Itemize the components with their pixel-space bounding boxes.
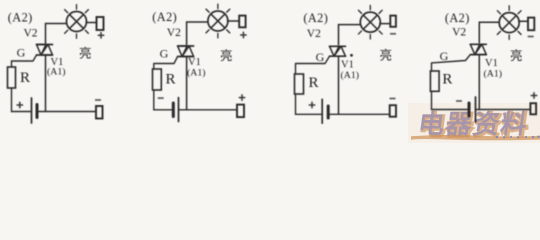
polarity sign + at top terminal, circuit 2 bbox=[240, 32, 247, 39]
svg-text:V2: V2 bbox=[24, 28, 38, 40]
polarity sign - at top terminal, circuit 3 bbox=[390, 33, 396, 35]
triac V1 symbol circuit 1 bbox=[37, 45, 53, 56]
wire lamp to supply terminal, circuit 3 bbox=[380, 23, 391, 25]
triac designator V1 circuit 1 bbox=[51, 57, 64, 68]
node A2 label circuit 1 bbox=[8, 11, 33, 25]
supply terminal (top box) circuit 4 bbox=[528, 18, 534, 31]
triac designator V1 circuit 2 bbox=[188, 57, 201, 68]
battery polarity sign - circuit 4 bbox=[456, 100, 462, 102]
svg-text:V2: V2 bbox=[307, 28, 321, 40]
wire lamp to supply terminal, circuit 1 bbox=[86, 22, 97, 24]
svg-text:G: G bbox=[160, 47, 169, 61]
svg-text:V2: V2 bbox=[452, 27, 466, 39]
wire A2 top: triac anode up and over to lamp, circuit 4 bbox=[479, 22, 500, 43]
gate label G circuit 1 bbox=[17, 46, 26, 60]
watermark underline swoosh bbox=[411, 135, 540, 140]
svg-text:V2: V2 bbox=[167, 27, 181, 39]
wire resistor to battery (bottom left), circuit 4 bbox=[432, 91, 470, 109]
node A2 label circuit 4 bbox=[445, 11, 470, 25]
wire battery to bottom terminal (through A1 node), circuit 1 bbox=[37, 111, 96, 113]
supply terminal (top box) circuit 1 bbox=[97, 17, 104, 30]
watermark tint patch bbox=[408, 103, 540, 143]
svg-text:亮: 亮 bbox=[510, 48, 523, 63]
anode label (A1) circuit 3 bbox=[341, 70, 360, 81]
wire gate G from triac to resistor, circuit 1 bbox=[12, 55, 37, 67]
svg-text:亮: 亮 bbox=[220, 48, 233, 63]
triac designator V1 circuit 4 bbox=[485, 58, 498, 69]
resistor R circuit 2 bbox=[153, 69, 162, 90]
bottom supply terminal (box) circuit 2 bbox=[237, 105, 244, 118]
resistor label R circuit 2 bbox=[166, 72, 176, 88]
svg-text:(A1): (A1) bbox=[484, 68, 503, 79]
resistor R circuit 3 bbox=[295, 74, 304, 94]
lamp state label bright circuit 2 bbox=[220, 48, 233, 63]
wire battery to bottom terminal (through A1 node), circuit 2 bbox=[179, 109, 238, 111]
wire A2 top: triac anode up and over to lamp, circuit 3 bbox=[339, 25, 361, 46]
battery (gate bias cell) circuit 3 bbox=[322, 99, 328, 123]
anode label (A1) circuit 2 bbox=[187, 67, 206, 78]
lamp state label bright circuit 1 bbox=[79, 46, 92, 61]
wire gate G from triac to resistor, circuit 2 bbox=[154, 57, 178, 70]
supply terminal (top box) circuit 2 bbox=[239, 16, 245, 28]
lamp state label bright circuit 3 bbox=[380, 48, 393, 63]
polarity sign + at bottom terminal, circuit 4 bbox=[531, 92, 538, 99]
lamp (indicator bulb) circuit 1 bbox=[65, 5, 89, 39]
gate label G circuit 3 bbox=[316, 50, 325, 64]
triac V1 symbol circuit 2 bbox=[178, 46, 194, 57]
svg-text:G: G bbox=[17, 46, 26, 60]
svg-text:R: R bbox=[442, 72, 452, 88]
wire lamp to supply terminal, circuit 2 bbox=[227, 20, 239, 22]
wire gate G from triac to resistor, circuit 3 bbox=[296, 56, 330, 74]
node A2 label circuit 2 bbox=[152, 10, 177, 24]
polarity sign - at bottom terminal, circuit 1 bbox=[95, 99, 101, 101]
svg-text:R: R bbox=[309, 75, 319, 91]
svg-text:(A2): (A2) bbox=[445, 11, 470, 25]
wire battery to bottom terminal (through A1 node), circuit 4 bbox=[476, 109, 531, 111]
wire lamp to supply terminal, circuit 4 bbox=[519, 20, 528, 22]
gate label G circuit 2 bbox=[160, 47, 169, 61]
wire gate G from triac to resistor, circuit 4 bbox=[432, 55, 471, 71]
battery polarity sign - circuit 2 bbox=[158, 97, 164, 99]
polarity sign - at top terminal, circuit 4 bbox=[528, 36, 534, 38]
lamp state label bright circuit 4 bbox=[510, 48, 523, 63]
svg-text:G: G bbox=[316, 50, 325, 64]
svg-text:(A1): (A1) bbox=[341, 70, 360, 81]
battery polarity sign + circuit 3 bbox=[309, 102, 316, 109]
anode label (A1) circuit 1 bbox=[47, 67, 66, 78]
anode label (A1) circuit 4 bbox=[484, 68, 503, 79]
wire triac cathode A1 down to bottom rail, circuit 2 bbox=[186, 57, 188, 110]
wire A2 top: triac anode up and over to lamp, circuit 2 bbox=[187, 22, 209, 45]
node A2 label circuit 3 bbox=[303, 11, 328, 25]
triac V2 designator label circuit 3 bbox=[307, 28, 321, 40]
wire resistor to battery (bottom left), circuit 3 bbox=[296, 94, 323, 114]
svg-text:(A1): (A1) bbox=[47, 67, 66, 78]
wire battery to bottom terminal (through A1 node), circuit 3 bbox=[328, 113, 390, 115]
svg-text:(A2): (A2) bbox=[303, 11, 328, 25]
resistor label R circuit 4 bbox=[442, 72, 452, 88]
svg-text:G: G bbox=[440, 49, 449, 63]
battery (gate bias cell) circuit 1 bbox=[32, 98, 38, 123]
watermark small blue specks bbox=[496, 136, 540, 139]
svg-text:亮: 亮 bbox=[380, 48, 393, 63]
gate label G circuit 4 bbox=[440, 49, 449, 63]
resistor label R circuit 3 bbox=[309, 75, 319, 91]
triac V2 designator label circuit 1 bbox=[24, 28, 38, 40]
lamp (indicator bulb) circuit 2 bbox=[206, 4, 230, 38]
wire triac cathode A1 down to bottom rail, circuit 1 bbox=[45, 55, 47, 112]
svg-text:R: R bbox=[20, 70, 30, 86]
polarity sign + at bottom terminal, circuit 2 bbox=[239, 94, 246, 101]
svg-text:(A1): (A1) bbox=[187, 67, 206, 78]
triac V1 symbol circuit 4 bbox=[470, 44, 486, 54]
watermark text 电器资料 (blue layer) bbox=[416, 110, 530, 139]
battery (gate bias cell) circuit 2 bbox=[173, 98, 178, 122]
battery (gate bias cell) circuit 4 bbox=[469, 97, 476, 122]
supply terminal (top box) circuit 3 bbox=[390, 16, 396, 27]
svg-text:(A2): (A2) bbox=[152, 10, 177, 24]
triac V2 designator label circuit 2 bbox=[167, 27, 181, 39]
lamp (indicator bulb) circuit 4 bbox=[497, 6, 521, 40]
wire resistor to battery (bottom left), circuit 2 bbox=[154, 90, 174, 110]
resistor R circuit 1 bbox=[8, 67, 16, 88]
resistor R circuit 4 bbox=[430, 71, 439, 91]
stray ink dot circuit 3 bbox=[350, 54, 353, 57]
polarity sign - at bottom terminal, circuit 3 bbox=[390, 98, 396, 100]
resistor label R circuit 1 bbox=[20, 70, 30, 86]
lamp (indicator bulb) circuit 3 bbox=[358, 5, 382, 39]
wire triac cathode A1 down to bottom rail, circuit 3 bbox=[338, 56, 340, 114]
wire resistor to battery (bottom left), circuit 1 bbox=[12, 88, 32, 112]
wire A2 top: triac anode up and over to lamp, circuit 1 bbox=[46, 24, 68, 44]
triac designator V1 circuit 3 bbox=[341, 60, 354, 71]
svg-text:R: R bbox=[166, 72, 176, 88]
battery polarity sign + circuit 1 bbox=[17, 102, 24, 109]
triac V2 designator label circuit 4 bbox=[452, 27, 466, 39]
svg-text:(A2): (A2) bbox=[8, 11, 33, 25]
svg-text:电器资料: 电器资料 bbox=[416, 110, 530, 139]
bottom supply terminal (box) circuit 4 bbox=[530, 103, 536, 114]
bottom supply terminal (box) circuit 1 bbox=[96, 106, 103, 119]
svg-text:亮: 亮 bbox=[79, 46, 92, 61]
polarity sign + at top terminal, circuit 1 bbox=[98, 32, 105, 39]
watermark text 电器资料 (orange halo layer) bbox=[418, 111, 532, 140]
triac V1 symbol circuit 3 bbox=[330, 46, 346, 56]
wire triac cathode A1 down to bottom rail, circuit 4 bbox=[478, 55, 480, 110]
bottom supply terminal (box) circuit 3 bbox=[390, 105, 396, 117]
page background bbox=[0, 0, 540, 143]
